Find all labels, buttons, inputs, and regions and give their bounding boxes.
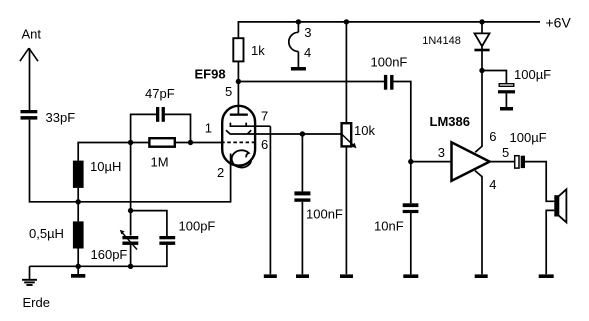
tube grid g2 bbox=[230, 123, 270, 127]
wire 1k bottom bbox=[237, 61, 239, 81]
capacitor C 100uF filter bbox=[498, 84, 515, 94]
capacitor C 160pF variable bbox=[122, 236, 138, 245]
inductor L2 0,5uH bbox=[73, 221, 84, 248]
capacitor C 10nF bbox=[403, 203, 419, 213]
svg-text:100µF: 100µF bbox=[510, 130, 547, 145]
node diode rail junction bbox=[479, 19, 484, 24]
ground stub pot bbox=[340, 274, 353, 278]
wire 1k top to rail bbox=[238, 22, 540, 38]
arrow 160pF bbox=[120, 230, 137, 250]
wire 100pF branch bbox=[131, 211, 167, 236]
ground stub filter cap bbox=[500, 107, 513, 111]
svg-text:10nF: 10nF bbox=[374, 219, 404, 234]
speaker bbox=[554, 189, 566, 222]
svg-text:100pF: 100pF bbox=[179, 219, 216, 234]
svg-text:3: 3 bbox=[304, 25, 311, 40]
node pot rail junction bbox=[344, 19, 349, 24]
wire coil bottom bbox=[77, 249, 79, 267]
svg-text:1: 1 bbox=[205, 121, 212, 136]
potentiometer 10k bbox=[342, 123, 352, 146]
svg-text:4: 4 bbox=[304, 45, 311, 60]
svg-text:6: 6 bbox=[261, 137, 268, 152]
node tank top junction bbox=[128, 208, 133, 213]
svg-text:5: 5 bbox=[502, 145, 509, 160]
wire output cap to speaker bbox=[525, 162, 554, 202]
ground stub heater bbox=[291, 67, 306, 71]
svg-text:+6V: +6V bbox=[546, 14, 572, 30]
wire coil link bbox=[77, 188, 79, 222]
wire anode / pin 5 bbox=[237, 82, 239, 114]
capacitor C 100uF output bbox=[515, 156, 525, 168]
wire anode row to coupling cap bbox=[238, 81, 384, 83]
ground stub coil bbox=[71, 274, 85, 278]
svg-text:Erde: Erde bbox=[23, 295, 50, 310]
wire diode to pin6 bbox=[481, 44, 483, 71]
node g3 junction bbox=[300, 131, 305, 136]
wire grid row left bbox=[131, 142, 150, 144]
svg-text:100nF: 100nF bbox=[371, 55, 408, 70]
capacitor C 100nF coupling bbox=[384, 75, 394, 90]
svg-text:10µH: 10µH bbox=[90, 159, 121, 174]
wire 10nF bottom bbox=[410, 213, 412, 274]
node pin5 junction bbox=[236, 79, 241, 84]
svg-text:6: 6 bbox=[489, 129, 496, 144]
node decoupling junction bbox=[479, 68, 484, 73]
ground stub pin 4 bbox=[475, 274, 488, 278]
svg-text:EF98: EF98 bbox=[195, 67, 226, 82]
wire coupling cap to amp input bbox=[394, 82, 411, 162]
wire g3 bypass drop bbox=[301, 134, 303, 191]
svg-text:LM386: LM386 bbox=[430, 114, 470, 129]
wire to filter cap bbox=[482, 71, 506, 84]
wire pin 6 bbox=[475, 71, 482, 153]
tube grid g1 dashed bbox=[221, 141, 254, 143]
svg-text:Ant: Ant bbox=[22, 27, 42, 42]
wire pin 4 bbox=[475, 171, 482, 275]
svg-text:160pF: 160pF bbox=[91, 247, 128, 262]
svg-text:2: 2 bbox=[217, 165, 224, 180]
svg-text:33pF: 33pF bbox=[46, 110, 76, 125]
wire 160pF bottom bbox=[130, 245, 132, 266]
wire grid row right / pin 1 bbox=[175, 142, 222, 144]
svg-text:1M: 1M bbox=[151, 155, 169, 170]
svg-text:3: 3 bbox=[438, 145, 445, 160]
svg-text:7: 7 bbox=[261, 109, 268, 124]
ground stub 10nF bbox=[403, 274, 418, 278]
wire speaker bottom bbox=[546, 210, 554, 274]
ground stub bypass bbox=[296, 274, 309, 278]
wire input drop to 10nF bbox=[410, 162, 412, 204]
resistor R 1M bbox=[149, 138, 174, 147]
node heater rail junction bbox=[296, 19, 301, 24]
tube EF98 envelope bbox=[222, 106, 255, 166]
tube anode plate bbox=[230, 114, 248, 116]
node coil ground junction bbox=[76, 264, 81, 269]
arrow pot wiper bbox=[342, 134, 357, 148]
svg-text:100µF: 100µF bbox=[514, 67, 551, 82]
resistor R 1k bbox=[233, 38, 243, 61]
capacitor C 47pF bbox=[156, 107, 165, 122]
node amp input junction bbox=[408, 159, 413, 164]
wire rail to diode bbox=[481, 22, 483, 33]
tube grid g3 bbox=[226, 130, 342, 134]
wire 47pF right branch bbox=[165, 114, 191, 142]
svg-text:1N4148: 1N4148 bbox=[422, 35, 461, 47]
node tank bottom junction bbox=[128, 264, 133, 269]
wire pot bottom bbox=[345, 146, 347, 274]
capacitor C 100nF bypass bbox=[294, 191, 310, 201]
svg-text:5: 5 bbox=[225, 84, 232, 99]
inductor L1 10uH bbox=[73, 161, 84, 188]
svg-text:10k: 10k bbox=[354, 123, 375, 138]
capacitor C 33pF bbox=[21, 110, 38, 120]
wire antenna stem bbox=[29, 48, 31, 110]
wire cathode / pin 2 bbox=[230, 154, 232, 203]
tube cathode bbox=[232, 150, 252, 167]
wire input to pin 3 bbox=[411, 161, 452, 163]
wire stub drop bbox=[77, 266, 79, 274]
wire pin 7 down bbox=[269, 126, 271, 274]
wire coil top to grid row bbox=[78, 143, 130, 161]
ground stub pin7 bbox=[264, 274, 277, 278]
svg-text:100nF: 100nF bbox=[306, 206, 343, 221]
tube heater pins 3-4 bbox=[289, 22, 299, 67]
op-amp LM386 triangle bbox=[452, 142, 490, 181]
node coil junction bbox=[76, 199, 81, 204]
svg-text:0,5µH: 0,5µH bbox=[29, 226, 64, 241]
antenna symbol bbox=[20, 48, 38, 61]
wire filter cap bottom bbox=[505, 93, 507, 107]
ground Erde bbox=[22, 280, 37, 285]
ground stub speaker bbox=[539, 274, 554, 278]
wire 47pF left branch bbox=[131, 114, 156, 142]
capacitor C 100pF bbox=[159, 236, 175, 245]
wire erde riser bbox=[29, 266, 31, 279]
node grid-leak right junction bbox=[188, 140, 193, 145]
diode D 1N4148 bbox=[474, 33, 489, 51]
svg-text:1k: 1k bbox=[251, 43, 265, 58]
wire rail to pot bbox=[345, 22, 347, 123]
svg-text:4: 4 bbox=[489, 177, 496, 192]
wire pin 5 output bbox=[490, 161, 515, 163]
wire bottom tank row bbox=[30, 245, 167, 266]
wire tank drop from grid leak bbox=[130, 143, 132, 236]
node grid-leak left junction bbox=[128, 140, 133, 145]
wire antenna line down bbox=[30, 120, 231, 202]
wire bypass bottom bbox=[301, 202, 303, 274]
svg-text:47pF: 47pF bbox=[145, 86, 175, 101]
